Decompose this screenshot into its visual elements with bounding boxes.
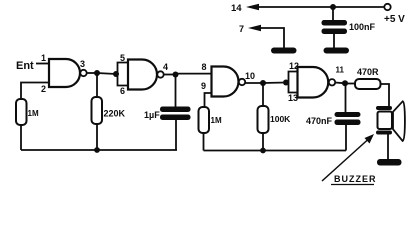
pin 2 label [41,84,46,94]
pin 7 label [239,24,244,34]
wire 1uF to rail [175,120,177,150]
resistor 1M left [16,99,27,125]
bubble U1b [157,71,163,77]
label 470R [357,67,379,77]
wire U1b output to node B [164,74,176,76]
wire node D to 470R [345,83,355,85]
svg-text:8: 8 [202,62,207,72]
svg-text:470R: 470R [357,67,379,77]
buzzer pointer arrow [322,134,374,181]
wire U1c output to node C [245,82,263,84]
wire pin1 input [36,63,50,65]
label BUZZER [331,174,377,185]
pin 1 label [41,53,46,63]
pin 5 label [120,53,125,63]
pin 10 label [245,71,255,81]
nand gate U1a [49,59,80,87]
junction dot U1d input [283,80,289,86]
buzzer bottom plate [376,131,392,135]
bubble U1c [239,79,245,85]
wire 100K to rail right [262,133,264,151]
resistor 470R [355,79,381,89]
junction dot +5V rail [330,4,336,10]
wire input bracket U1d [289,72,298,93]
wire node D down to 470nF [345,83,347,112]
wire node A to U1b input [97,73,116,74]
node D junction dot [342,80,348,86]
wire +5V rail [257,6,385,8]
wire 470R to buzzer [381,84,390,107]
node C junction dot [260,80,266,86]
svg-text:1µF: 1µF [144,110,160,120]
wire pin 7 to ground [259,28,284,48]
bubble U1a [80,70,86,76]
buzzer top plate [376,106,392,110]
terminal +5V [384,4,390,10]
svg-text:1M: 1M [211,116,222,125]
svg-text:6: 6 [120,86,125,96]
wire node B down to 1uF [175,75,177,107]
svg-text:3: 3 [80,59,85,69]
ground bar under buzzer [377,159,402,166]
arrow pin 14 [246,4,259,10]
label 1M left [28,109,39,118]
svg-text:1: 1 [41,53,46,63]
pin 11 label [336,66,345,75]
wire 1M left to ground rail [20,125,22,150]
svg-text:9: 9 [201,81,206,91]
junction dot rail left [94,147,100,153]
pin 9 label [201,81,206,91]
resistor 1M right [199,107,210,133]
wire 100nF to ground [333,34,335,48]
wire node A down to 220K [96,73,98,97]
svg-text:1M: 1M [28,109,39,118]
label 470nF [306,116,333,126]
pin 4 label [163,62,168,72]
pin 12 label [289,61,299,71]
pin 8 label [202,62,207,72]
resistor 100K [258,106,269,133]
wire pin2 input [21,83,50,100]
wire node B to pin 8 [176,73,212,75]
pin 13 label [288,93,298,103]
ground bar pin 7 [271,48,297,54]
svg-text:10: 10 [245,71,255,81]
wire U1a output to node A [87,72,97,74]
buzzer cone [393,101,405,141]
svg-text:2: 2 [41,84,46,94]
svg-text:11: 11 [336,66,345,75]
nand gate U1d [298,67,329,98]
wire node C to U1d input [263,82,286,85]
svg-text:Ent: Ent [16,60,34,72]
wire input bracket U1b [118,63,129,86]
resistor 220K [92,97,103,124]
wire U1d output to node D [335,82,345,85]
capacitor 1uF plate top [160,107,191,113]
bubble U1d [329,79,335,85]
label 100nF [349,22,376,32]
ground bar under 100nF [324,48,350,54]
node B junction dot [173,72,179,78]
svg-text:BUZZER: BUZZER [334,174,377,184]
label 100K [270,114,291,124]
wire 470nF to rail right [345,125,347,151]
pin 3 label [80,59,85,69]
node A junction dot [94,70,100,76]
label 1uF [144,110,160,120]
label 1M right [211,116,222,125]
ground rail left [21,149,177,151]
svg-text:+5 V: +5 V [384,14,405,25]
capacitor 470nF plate top [335,112,361,117]
label 220K [104,109,126,119]
capacitor 100nF plate top [322,20,348,26]
capacitor 470nF plate bottom [335,120,361,126]
pin 14 label [231,3,242,14]
wire node C down to 100K [262,83,264,106]
svg-text:470nF: 470nF [306,116,333,126]
capacitor 1uF plate bottom [160,115,191,121]
svg-text:100K: 100K [270,114,291,124]
svg-text:5: 5 [120,53,125,63]
junction dot U1b input [113,71,119,77]
capacitor 100nF plate bottom [322,29,348,35]
buzzer body square [378,112,393,130]
ground rail right [204,150,347,152]
svg-text:220K: 220K [104,109,126,119]
arrow pin 7 [248,25,261,31]
wire 1M right to rail right [203,133,205,151]
junction dot rail right [260,148,266,154]
svg-text:100nF: 100nF [349,22,376,32]
svg-text:4: 4 [163,62,168,72]
wire +5V rail to 100nF [332,7,334,20]
label Ent [16,60,34,72]
pin 6 label [120,86,125,96]
svg-text:7: 7 [239,24,244,34]
nand gate U1b [128,60,157,90]
svg-text:14: 14 [231,3,242,14]
nand gate U1c [212,67,239,97]
wire pin 9 to 1M right [205,93,212,107]
wire buzzer to ground [387,135,389,160]
wire 220K to rail [96,124,98,150]
label +5V [384,14,405,25]
